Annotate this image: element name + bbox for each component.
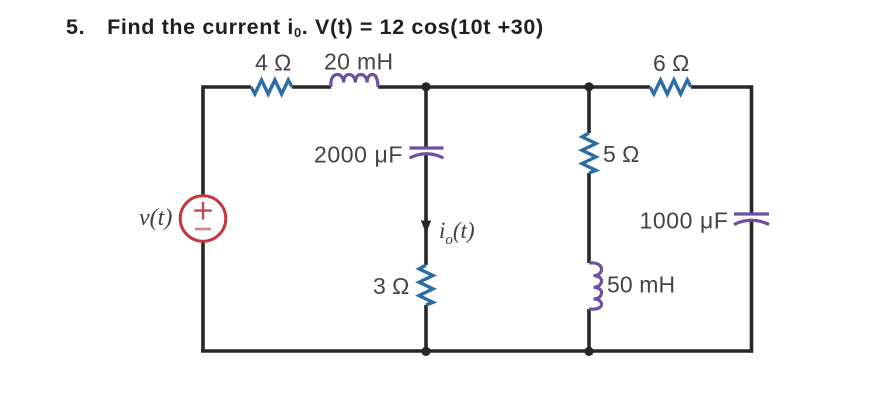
node B: junction dot top second branch (584, 82, 593, 91)
resistor R2 3Ω (419, 265, 433, 305)
svg-text:4 Ω: 4 Ω (255, 50, 291, 76)
svg-text:1000 μF: 1000 μF (640, 208, 729, 234)
wire: bottom side (201, 349, 753, 353)
resistor R1 4Ω (251, 80, 292, 94)
wire: second branch, below L2 (587, 309, 591, 351)
svg-text:50 mH: 50 mH (607, 272, 675, 298)
capacitor C2 1000 µF (734, 214, 769, 225)
wire: left side, above source (201, 85, 205, 196)
svg-text:v(t): v(t) (139, 205, 172, 231)
inductor L1 20 mH (331, 75, 378, 88)
wire: top side, left segment (corner to R1) (203, 85, 251, 89)
svg-text:3 Ω: 3 Ω (373, 273, 409, 299)
title: problem statement (66, 15, 544, 40)
svg-text:6 Ω: 6 Ω (653, 50, 689, 76)
node D: junction dot bottom second branch (584, 347, 593, 356)
svg-text:2000 μF: 2000 μF (314, 142, 403, 168)
node A: junction dot top middle (421, 82, 430, 91)
resistor R4 6Ω (650, 80, 691, 94)
wire: second branch, R3 to inductor L2 (587, 173, 591, 263)
wire: left side, below source (201, 241, 205, 351)
svg-text:io(t): io(t) (439, 218, 475, 248)
wire: top side, between R1 and L1 (292, 85, 331, 89)
wire: second branch, node B to resistor R3 (587, 87, 591, 133)
wire: middle branch, below resistor R2 (424, 305, 428, 351)
inductor L2 50 mH (589, 263, 602, 309)
wire: top side, R4 to top-right corner (691, 85, 753, 89)
wire: right side below capacitor C2 (750, 222, 754, 353)
node C: junction dot bottom middle (421, 347, 430, 356)
wire: right side (750, 85, 754, 214)
resistor R3 5Ω (582, 133, 596, 173)
voltage source V1 v(t) (180, 196, 226, 242)
wire: middle branch, node A to capacitor C1 (424, 87, 428, 148)
capacitor C1 2000 µF (410, 148, 444, 158)
svg-text:20 mH: 20 mH (324, 49, 394, 75)
wire: middle branch, capacitor C1 to resistor R2 (424, 155, 428, 266)
current arrow i_o(t) (421, 221, 431, 234)
svg-text:5 Ω: 5 Ω (603, 141, 639, 167)
wire: top side, L1 to R4 (through nodes A and B) (378, 85, 650, 89)
